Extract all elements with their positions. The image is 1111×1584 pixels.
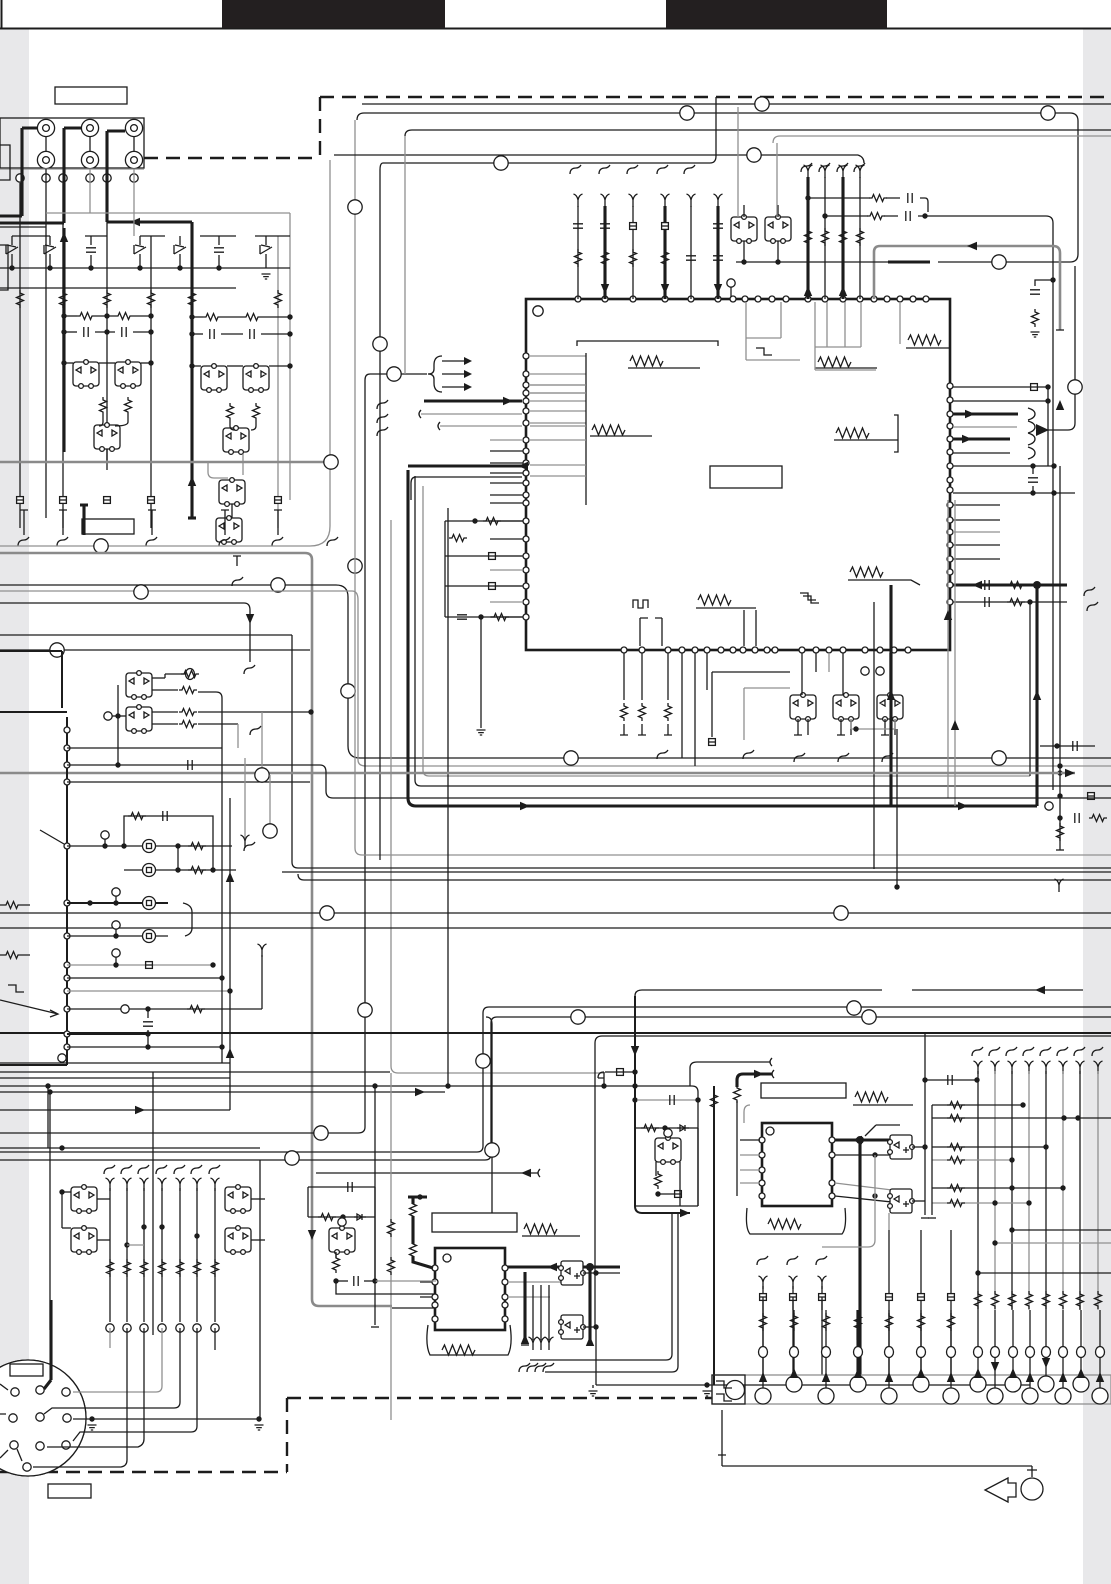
diode box M3 (71, 1226, 97, 1255)
transistor Q25 (888, 1189, 915, 1213)
small circles column ends (106, 1324, 114, 1332)
stub arrows into U3 (420, 1282, 432, 1297)
wires K1 K2 (152, 677, 165, 679)
grey vertical x278 (277, 236, 279, 528)
pass-through circles row (16, 174, 24, 182)
bus y1017 (0, 1017, 1111, 1160)
left pins to edge (0, 1384, 8, 1458)
wire J2-J5 link (89, 137, 91, 151)
right thick y585 (953, 583, 1067, 586)
line y1173 (316, 1172, 538, 1174)
resistor R41 label (768, 1219, 801, 1229)
circled B motor2 (143, 864, 156, 877)
arrow bus y1110 (135, 1106, 145, 1114)
wires Q10 Q11 (743, 241, 745, 262)
right wiring y401 (953, 400, 1048, 402)
array row y1118 (932, 1117, 1111, 1119)
Q22 wires (667, 1128, 669, 1138)
right wiring y520 (953, 519, 1000, 521)
vertical x262 stub (261, 955, 263, 1009)
vertical x874 (873, 602, 875, 869)
wire to D2 (230, 421, 256, 430)
top components right group (806, 177, 809, 299)
cap C in row (86, 248, 96, 252)
under-IC wiring to bus (681, 690, 683, 758)
vertical x230 (229, 798, 231, 1110)
pin fan long y1419 (73, 1418, 259, 1420)
left box horizontal y782 (67, 781, 310, 783)
stubs under boxes (797, 719, 799, 735)
bus y1033 (0, 1032, 1111, 1034)
cap drop x1033 (1032, 466, 1034, 474)
wire J3-J6 link (133, 137, 135, 151)
hook row right group (801, 163, 812, 172)
grey arrow x312 (308, 1230, 316, 1240)
res cap top of bracket (128, 813, 146, 820)
grey drop x900 (899, 302, 901, 344)
col110 stub (109, 1328, 111, 1348)
wire from J4 down (45, 169, 47, 236)
IC inner grey stubs to x586 (530, 384, 586, 386)
resistor R40 label (855, 1092, 888, 1102)
circle above IC (727, 279, 735, 287)
bus y1007 (0, 1007, 1111, 1152)
Q24 output (912, 1146, 925, 1148)
step glyph right (803, 596, 819, 603)
hook right of motor row (244, 842, 255, 851)
grey staircase pins B (815, 302, 876, 370)
small circle left of K2 (104, 712, 112, 720)
rounded pair to IC2 (530, 1213, 672, 1360)
bus nest x415 (415, 476, 1111, 786)
IC U3 left pins (432, 1265, 438, 1271)
right wiring y545 (953, 544, 1000, 546)
IC U3 pin mark (443, 1254, 451, 1262)
motor row y870 (124, 869, 142, 871)
IC U4 left pins (759, 1137, 765, 1143)
line y163 (383, 97, 716, 163)
bus y650 (0, 649, 310, 651)
wire x260 from above (259, 1160, 261, 1419)
wire transistor row bus (64, 362, 73, 364)
IC U4 right pins (829, 1137, 835, 1143)
gnd right of row (262, 274, 271, 279)
vertical x270 (269, 775, 271, 831)
left box horizontal y1047 (67, 1046, 222, 1048)
columns x533-549 (532, 1285, 534, 1340)
step glyph inside (800, 593, 816, 600)
dashed frame left upper (144, 97, 320, 158)
array row y1243 (995, 1242, 1111, 1244)
vertical x635 trunk (635, 996, 690, 1213)
arrow on thick y222 (130, 218, 140, 226)
thick feed to U3 (408, 1197, 433, 1268)
wire vertical x20 (19, 183, 21, 528)
transistor Q22 (655, 1136, 681, 1165)
wire mesh mid-left (64, 315, 77, 317)
long vertical x365 (0, 374, 427, 1133)
bracket stub left edge (0, 145, 10, 180)
dots transistor bus (61, 360, 66, 365)
bus y603 to hook (0, 603, 250, 662)
right cluster y766 dots (1057, 763, 1062, 768)
U3 right wiring y1267 (508, 1265, 620, 1268)
IC2 grey rung y1100 (637, 1099, 698, 1101)
jog y903 to y936 (183, 903, 192, 936)
right wiring y505 (953, 504, 1000, 506)
diode-pair box D2 (223, 426, 249, 455)
transistor Q11 (765, 215, 791, 244)
IC2 cluster top wiring (598, 1072, 604, 1086)
line y198 (808, 198, 928, 212)
IC internal bracket (577, 341, 718, 346)
h cap mesh rows (84, 327, 88, 337)
wire thick bus x64 down (62, 228, 65, 452)
stub lines into left pins (490, 439, 523, 441)
thick vertical x1037 (1035, 585, 1038, 806)
inner vertical x445 (444, 521, 446, 617)
grey staircase pins A (746, 302, 800, 360)
resistor column top (17, 290, 24, 308)
diode box M4 (225, 1226, 251, 1255)
ground x593 (592, 1385, 594, 1388)
resistor R20 label (850, 567, 883, 577)
U4 input wires (740, 1139, 760, 1141)
array row y1147 (932, 1146, 1046, 1148)
right wiring y387 (953, 386, 1048, 388)
feed x737 down (736, 1101, 738, 1196)
IC U1 bottom pins (621, 647, 627, 653)
IC U1 top pins (575, 296, 581, 302)
vertical x245 (244, 758, 246, 838)
wires from bottom pins to boxes (801, 653, 803, 695)
arrow on y806 (520, 802, 530, 810)
via on y374 (387, 367, 401, 381)
pin fan grey to col162 (73, 1328, 162, 1392)
dot y1148 (0, 1147, 260, 1149)
via x355 upper (348, 559, 362, 573)
bus nest x448 (447, 508, 449, 1086)
terminal J3 (125, 119, 142, 136)
thick vertical x891 (889, 585, 892, 806)
vertical x238 (237, 724, 239, 748)
via on y650 (50, 643, 64, 657)
branch x1053 (1050, 277, 1055, 282)
motor circle (726, 1381, 745, 1400)
diode box M2 (225, 1185, 251, 1214)
transistor Q3 (201, 364, 227, 393)
circles on left box edge (64, 727, 70, 733)
IC inner stubs from left pins (529, 355, 586, 357)
array row y1160 (932, 1159, 1012, 1161)
IC inner bus x586 (585, 353, 587, 505)
stub to circle (1027, 1466, 1037, 1477)
resistor R12 label (836, 428, 869, 438)
array row y1188 (932, 1187, 1063, 1189)
thick input y401 (424, 399, 522, 402)
via on box bottom edge (94, 539, 108, 553)
wires Q21 (583, 1326, 596, 1328)
inner res diag (449, 535, 467, 542)
grey corner x750 (744, 1105, 750, 1123)
bus y990 (635, 990, 1083, 996)
diode D row (6, 245, 18, 254)
small circle y835 (101, 831, 109, 839)
jog to Q5 (208, 462, 228, 478)
motor row y936 (67, 935, 168, 937)
cap y1080 (925, 1079, 977, 1081)
arrows on x230 (226, 872, 234, 882)
bus y635 (0, 634, 292, 636)
vertical x525 thick (523, 1272, 526, 1342)
via x357 top (348, 200, 362, 214)
bottom-left 7 columns (106, 1178, 115, 1191)
grey verticals left of U3 (390, 1073, 392, 1420)
bus y1086 (0, 1086, 698, 1206)
wire vertical x151 (150, 236, 152, 528)
right wiring y414 (953, 412, 1018, 415)
motor row y965 grey (67, 964, 213, 966)
U3 right wiring y1297 (508, 1296, 550, 1298)
via on y588 (134, 585, 148, 599)
resistors on x391 (388, 1219, 395, 1237)
strip circles upper row (786, 1376, 802, 1392)
wire to D1 (99, 415, 128, 426)
IC U1 pin1 mark (533, 306, 543, 316)
thick resistor x737 (734, 1085, 741, 1103)
line y104 (362, 103, 1111, 105)
header band border (0, 0, 1111, 29)
vertical x222 (221, 698, 223, 1063)
h resistor mesh rows (77, 313, 95, 320)
grey vertical x405 (404, 136, 406, 374)
label box W2 (82, 519, 134, 534)
diode-pair box D1 (94, 423, 120, 452)
left box horizontal y991g (67, 990, 230, 992)
cap row y746 (1040, 745, 1095, 747)
wire thick from J1 (0, 128, 37, 216)
IC U1 left pins (523, 353, 529, 359)
terminal J4 (37, 151, 54, 168)
vertical x50 (49, 1092, 51, 1330)
wire vertical x107 lower (106, 222, 108, 460)
rounded box bottom edge (0, 160, 330, 546)
vertical x690 (689, 1068, 691, 1086)
small circle y953 (112, 949, 120, 957)
bus y1063 (0, 1062, 230, 1064)
bus y880 (298, 874, 1111, 880)
bottom rail y1466 (722, 1465, 1032, 1467)
bottom-left hook row (104, 1165, 115, 1174)
slant arrow into box y846 (40, 830, 64, 844)
cap drop x148 (147, 1009, 149, 1018)
hook row above IC left (570, 165, 581, 174)
wire vertical x63 (62, 183, 64, 528)
pin fan y1432 to col197 (73, 1328, 197, 1441)
rail drop from strip (718, 1410, 726, 1466)
long vertical x292 (291, 635, 293, 862)
terminal J5 (81, 151, 98, 168)
resistor R31 label (442, 1345, 475, 1355)
vertical x1030 (1029, 602, 1031, 776)
connector pins (11, 1388, 19, 1396)
transistor Q1 (73, 360, 99, 389)
pin fan y1408 to col180 (44, 1328, 180, 1414)
hooks left of inputs (377, 400, 388, 409)
diode box K2 (126, 705, 152, 734)
diode-pair box D3 (216, 516, 242, 545)
wire thick from J2 (0, 128, 81, 223)
line y130 (405, 130, 1111, 136)
U4 right y1155 (835, 1154, 890, 1156)
terminal circle bottom (1021, 1478, 1043, 1500)
motor row y846 (67, 845, 142, 847)
right wiring y427 (953, 426, 1017, 428)
oval resistor (186, 669, 195, 680)
input arrows (464, 357, 472, 391)
bus y288 (0, 287, 236, 289)
step glyph left edge (8, 985, 24, 992)
motor row y903 thick (67, 902, 168, 904)
hooks row y1362 (519, 1363, 530, 1372)
bracket over motors (124, 816, 213, 870)
grey wire x744 (744, 688, 790, 740)
bus y591 grey to y766 (0, 591, 1111, 766)
inner wiring y556 (445, 555, 523, 557)
under-IC columns right (681, 653, 683, 690)
line y155 (334, 154, 858, 156)
inner wiring y586 (445, 585, 523, 587)
IC U1 label box (710, 466, 782, 488)
right wiring y466 (953, 465, 1054, 467)
bus y913 (0, 912, 1111, 914)
dots on y1086 (45, 1083, 50, 1088)
line y216 (825, 216, 1053, 790)
bus y553 grey thick (0, 553, 392, 1306)
IC2 res diode row (635, 1127, 698, 1129)
label box W3 (48, 1484, 91, 1498)
grey line y136 right (773, 136, 1111, 143)
columns mid (888, 1230, 890, 1375)
grey thick y462 (0, 461, 330, 464)
grey wire y213 (46, 212, 290, 214)
small circle y925 (112, 921, 120, 929)
input stubs (442, 360, 465, 362)
inner wiring y521 (445, 520, 523, 522)
left box horizontal y1034 (67, 1033, 148, 1035)
thick segment y262 (888, 260, 930, 263)
line y113 (357, 113, 1078, 262)
vertical pair x948 x955 (947, 500, 949, 798)
grey routing to columns (822, 1155, 875, 1247)
strip circles lower row (755, 1388, 771, 1404)
input y414 grey (419, 410, 421, 418)
U3 right wiring y1282 (508, 1281, 561, 1283)
right wiring y453 (953, 452, 1010, 454)
IC U1 right pins (947, 383, 953, 389)
array row y1273 (978, 1272, 1111, 1274)
header black bar left (222, 0, 445, 28)
strip column links lower (762, 1310, 764, 1388)
IC U3 body (435, 1248, 505, 1330)
U4 right y1140 thick (835, 1138, 890, 1141)
bottom left columns (759, 1276, 768, 1289)
array row y1203 (932, 1202, 1029, 1204)
wire from bus to M1 (47, 1084, 49, 1148)
line y477 under thick (411, 477, 522, 500)
resistor under Q pair (100, 397, 107, 415)
input y426 grey (438, 422, 440, 430)
right margin hooks (1084, 587, 1095, 596)
wire left edge horiz (0, 226, 46, 228)
bus under diode row (0, 267, 290, 269)
bus y1072 (0, 1071, 390, 1073)
right wiring y602 (953, 601, 1067, 603)
array trunk x932 (931, 1105, 933, 1215)
hook row bottom left group (757, 1256, 768, 1265)
left edge arrow line (0, 1000, 58, 1017)
wire from J6 down (133, 169, 135, 236)
bus y868 (292, 862, 1111, 868)
bus nest vertical x408 thick (408, 470, 1037, 806)
left box horizontal y765 (67, 765, 1111, 798)
brace left inputs (428, 356, 442, 392)
connector label box (10, 1364, 43, 1376)
vias on y758 (564, 751, 578, 765)
Q23 wires (338, 1218, 346, 1226)
transistor Q24 (888, 1135, 915, 1159)
wires M boxes (62, 1191, 71, 1193)
stub T x237 (233, 556, 241, 566)
vertical x1060 lower (1059, 466, 1061, 588)
pin fan y1466 to col127 (33, 1328, 127, 1467)
box symbol row y500 (17, 497, 24, 504)
resistor R30 label (524, 1224, 557, 1234)
wire vertical x46 (45, 236, 47, 518)
left box horizontal y1009 (67, 1008, 262, 1010)
grey vertical x290 (289, 213, 291, 500)
left box horizontal y978 (67, 977, 222, 979)
hooks under boxes (794, 753, 805, 762)
via on x330 (324, 455, 338, 469)
top components left group (577, 206, 579, 299)
via x348 on bend (341, 684, 355, 698)
label box W1 (55, 87, 127, 104)
Q25 output (912, 1200, 925, 1202)
arrow on thick x192 (188, 476, 196, 486)
wires Q20 (549, 1296, 551, 1298)
thick corner x737 (737, 1074, 772, 1087)
arrow on y1173 end (521, 1169, 531, 1177)
bus nest x423 (423, 486, 1030, 776)
vertical x492 (486, 1017, 492, 1213)
resistor R15 label (818, 357, 851, 367)
IC U4 body (762, 1123, 832, 1206)
pulse glyph (633, 600, 648, 608)
wire under Q5 (231, 504, 233, 518)
motor box outline (712, 1375, 745, 1404)
line y1062 to bracket (690, 1062, 770, 1068)
bus y1078 (0, 1077, 230, 1079)
bus y1036 (595, 1036, 1111, 1043)
resistor R11 label (592, 425, 625, 435)
U4 right y1183 (835, 1183, 892, 1190)
step glyphs in motor box (716, 1381, 732, 1388)
vertical x595 (594, 1043, 596, 1327)
dashed frame top (320, 96, 1111, 98)
step glyph left (756, 348, 772, 355)
connector ring CN2 (0, 1360, 86, 1476)
